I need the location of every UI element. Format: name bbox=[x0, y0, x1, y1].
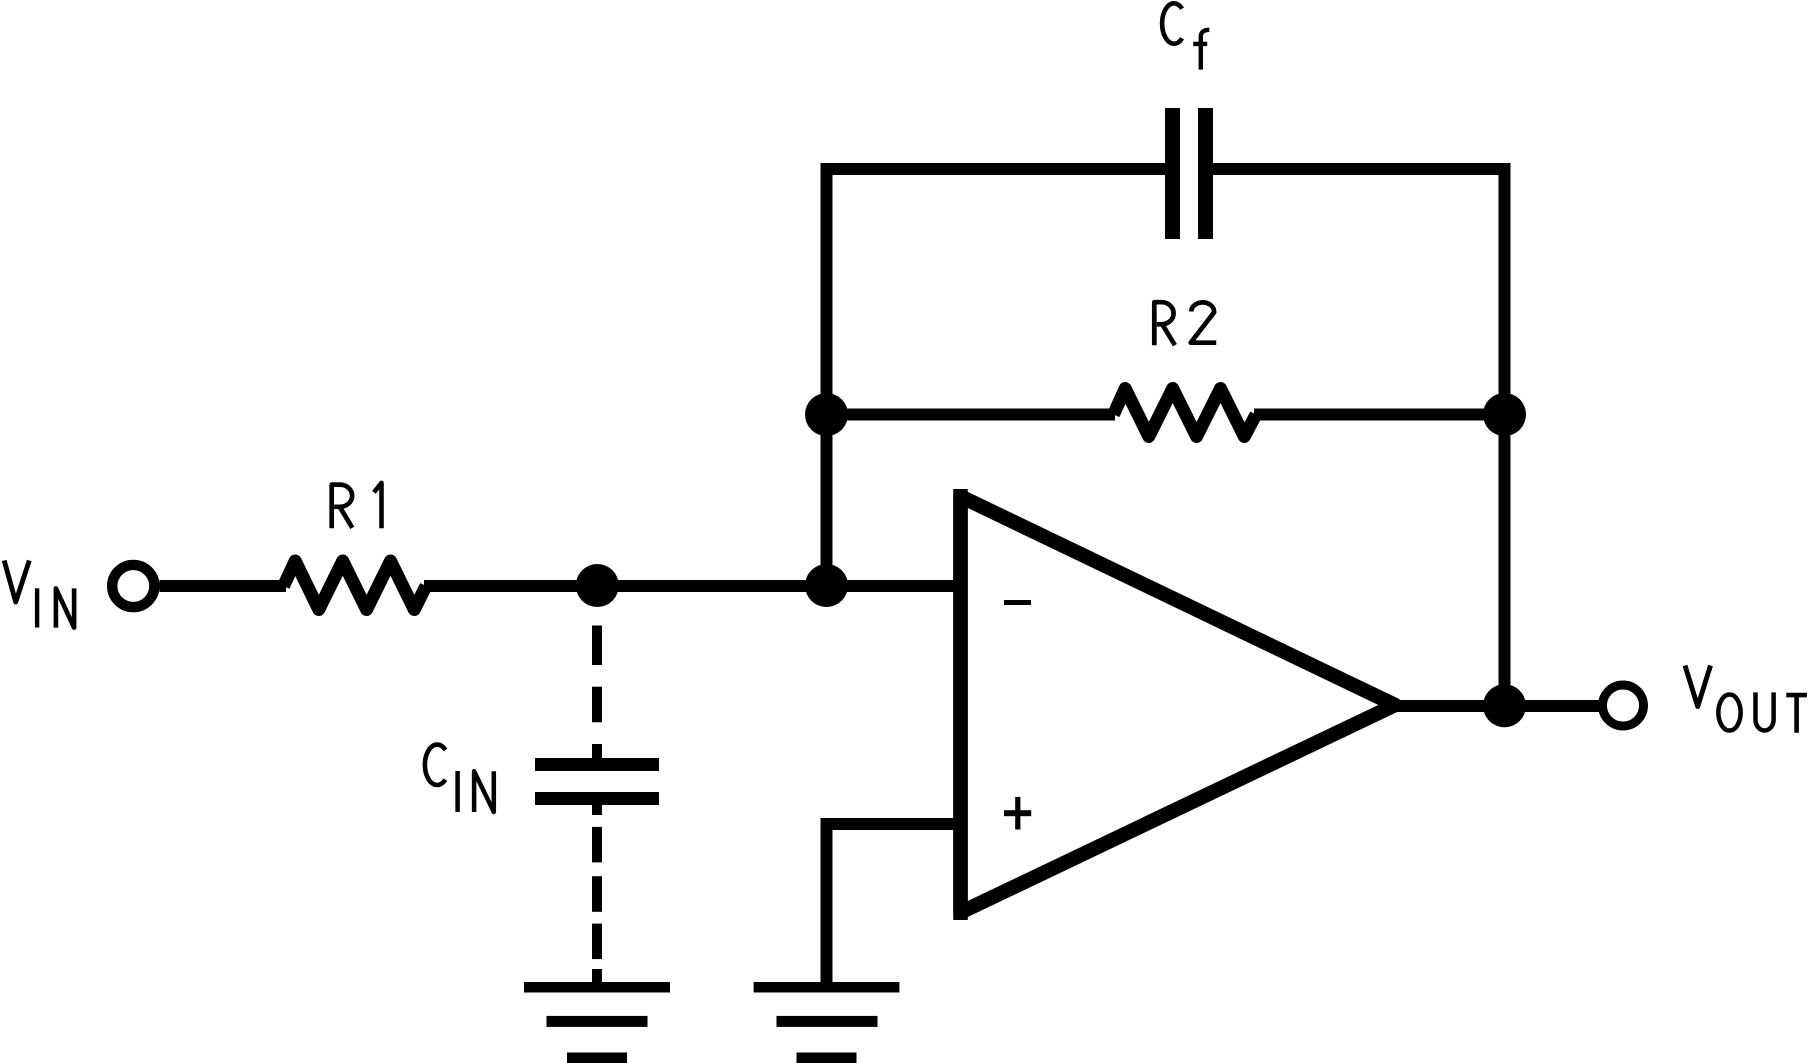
capacitor CIN bbox=[535, 758, 659, 805]
ground GND1 bbox=[524, 982, 670, 1063]
label VIN bbox=[4, 561, 74, 628]
resistor R2 bbox=[1114, 389, 1257, 437]
label VOUT bbox=[1685, 666, 1807, 733]
wire feedback right branch bbox=[1213, 169, 1505, 706]
wire R2 left bbox=[827, 409, 1116, 421]
ground GND2 bbox=[754, 982, 900, 1063]
node C R2 left bbox=[805, 393, 848, 436]
label CIN bbox=[425, 745, 494, 812]
minus input label bbox=[1004, 600, 1031, 605]
wire output bbox=[1396, 700, 1600, 712]
plus input label bbox=[1004, 797, 1031, 830]
wire non-inverting input bbox=[827, 824, 961, 982]
wire input bbox=[160, 580, 287, 592]
node A input-CIN junction bbox=[576, 564, 619, 607]
terminal VOUT bbox=[1603, 685, 1644, 726]
label R2 bbox=[1154, 302, 1216, 345]
wire dashed to CIN top bbox=[592, 626, 602, 760]
wire feedback left branch bbox=[827, 169, 1166, 586]
terminal VIN bbox=[112, 565, 154, 607]
wire R2 right bbox=[1254, 409, 1505, 421]
label Cf bbox=[1162, 3, 1209, 69]
capacitor Cf bbox=[1165, 108, 1213, 239]
node D R2 right bbox=[1483, 393, 1526, 436]
op-amp U1 bbox=[961, 496, 1396, 912]
node E output bbox=[1483, 684, 1526, 727]
wire R1 to op-amp inverting input bbox=[424, 580, 954, 592]
node B summing junction bbox=[805, 564, 848, 607]
label R1 bbox=[332, 483, 382, 528]
resistor R1 bbox=[284, 561, 427, 610]
wire dashed CIN bottom to ground bbox=[592, 805, 602, 983]
